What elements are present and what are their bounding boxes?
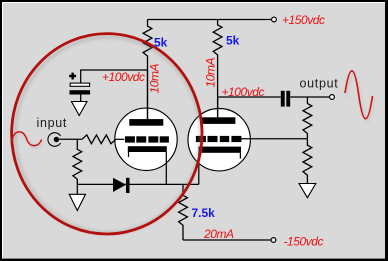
- input terminal jack: [48, 133, 61, 147]
- svg-text:output: output: [300, 76, 339, 90]
- svg-text:20mA: 20mA: [203, 227, 234, 241]
- ground G1 (under C1): [72, 102, 88, 116]
- svg-text:-150vdc: -150vdc: [284, 235, 324, 249]
- resistor R3 7.5k (cathode sink): [179, 184, 188, 240]
- resistor R4 (grid leak, vertical): [73, 139, 82, 184]
- svg-text:7.5k: 7.5k: [192, 206, 216, 220]
- capacitor C2 (output coupling): [281, 91, 290, 107]
- wire: node +100vdc right (V2 plate to C2): [218, 96, 281, 98]
- svg-text:input: input: [37, 116, 68, 130]
- ground G3 (under divider): [299, 184, 316, 198]
- resistor R1 5k (left plate load): [143, 20, 152, 121]
- annotation: red ellipse highlight: [12, 34, 202, 234]
- V2 grid (dashed): [196, 136, 242, 142]
- resistor R7 (grid stopper, horizontal): [82, 135, 116, 144]
- resistor R2 5k (right plate load): [213, 20, 222, 118]
- V2 plate: [201, 97, 235, 124]
- triode V2 envelope: [188, 109, 250, 171]
- svg-text:+100vdc: +100vdc: [102, 70, 145, 84]
- V1 plate: [129, 70, 163, 126]
- wire: V2 grid to divider node: [241, 138, 307, 140]
- wire: cathode bottom rail: [77, 183, 199, 185]
- wire: grid stopper to V1 grid: [116, 138, 124, 140]
- svg-text:5k: 5k: [226, 34, 240, 48]
- svg-text:+150vdc: +150vdc: [282, 13, 325, 27]
- capacitor C1 (polarized bypass): [69, 73, 90, 102]
- wire: +150vdc top rail: [148, 19, 272, 21]
- wire: output node: [290, 96, 329, 98]
- ground G2 (left rail): [69, 184, 85, 210]
- svg-text:10mA: 10mA: [148, 64, 162, 94]
- resistor R6 (output divider lower): [303, 139, 312, 184]
- annotation: red ellipse inner shadow: [15, 37, 201, 233]
- V1 cathode: [128, 146, 167, 184]
- terminal +150vdc: [272, 17, 277, 22]
- annotation: output sine: [345, 71, 373, 119]
- terminal output: [330, 95, 335, 100]
- V1 grid (dashed): [125, 136, 169, 142]
- resistor R5 (output divider upper): [303, 97, 312, 139]
- V2 cathode: [199, 147, 242, 185]
- wire: node +100vdc left to capacitor: [81, 70, 148, 83]
- wire: to -150vdc: [183, 239, 271, 241]
- annotation: input sine shadow: [13, 134, 44, 148]
- terminal -150vdc: [271, 238, 276, 243]
- annotation: input sine: [12, 132, 41, 146]
- annotation: output sine shadow: [347, 73, 375, 121]
- wire: input terminal to grid network: [58, 138, 82, 140]
- diode D1 (on cathode rail): [113, 178, 130, 193]
- svg-text:10mA: 10mA: [204, 58, 218, 88]
- triode V1 envelope: [115, 108, 177, 170]
- svg-text:+100vdc: +100vdc: [222, 85, 265, 99]
